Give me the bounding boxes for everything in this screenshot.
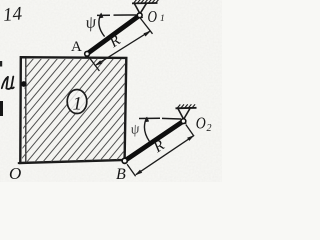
plate 1 (square hatched body): [20, 57, 126, 163]
pin B: [122, 158, 127, 163]
body label 1 (circled): [67, 90, 87, 114]
angle arc psi at O2: [144, 117, 149, 141]
dimension R of crank O1A: [90, 18, 153, 72]
label M (cursive): [2, 77, 14, 89]
ground support at O1: [132, 0, 159, 19]
svg-text:B: B: [116, 166, 126, 182]
point M (dot on left edge): [21, 81, 27, 87]
svg-text:O: O: [9, 164, 21, 182]
svg-text:14: 14: [2, 3, 23, 26]
plate hatching: [0, 40, 225, 175]
svg-text:1: 1: [160, 14, 165, 24]
svg-text:1: 1: [73, 94, 83, 115]
paper grain: [0, 0, 222, 182]
svg-text:O: O: [148, 7, 158, 26]
pivot O1: [137, 13, 142, 18]
plate left edge overdraw stroke: [25, 59, 27, 163]
svg-text:2: 2: [207, 123, 212, 134]
svg-text:O: O: [196, 114, 206, 133]
pivot O2: [181, 119, 186, 124]
ground support at O2: [176, 104, 197, 124]
crank O1A: [87, 15, 140, 54]
angle arc psi at O1: [99, 14, 105, 37]
scan artifact marks on left border: [0, 61, 2, 67]
crank O2B: [125, 121, 184, 161]
dimension R of crank O2B: [127, 125, 194, 177]
angle reference line at O1 (horizontal): [97, 14, 110, 16]
pin A: [85, 51, 90, 56]
svg-text:A: A: [71, 39, 82, 55]
angle reference line at O2 (horizontal): [139, 117, 160, 119]
